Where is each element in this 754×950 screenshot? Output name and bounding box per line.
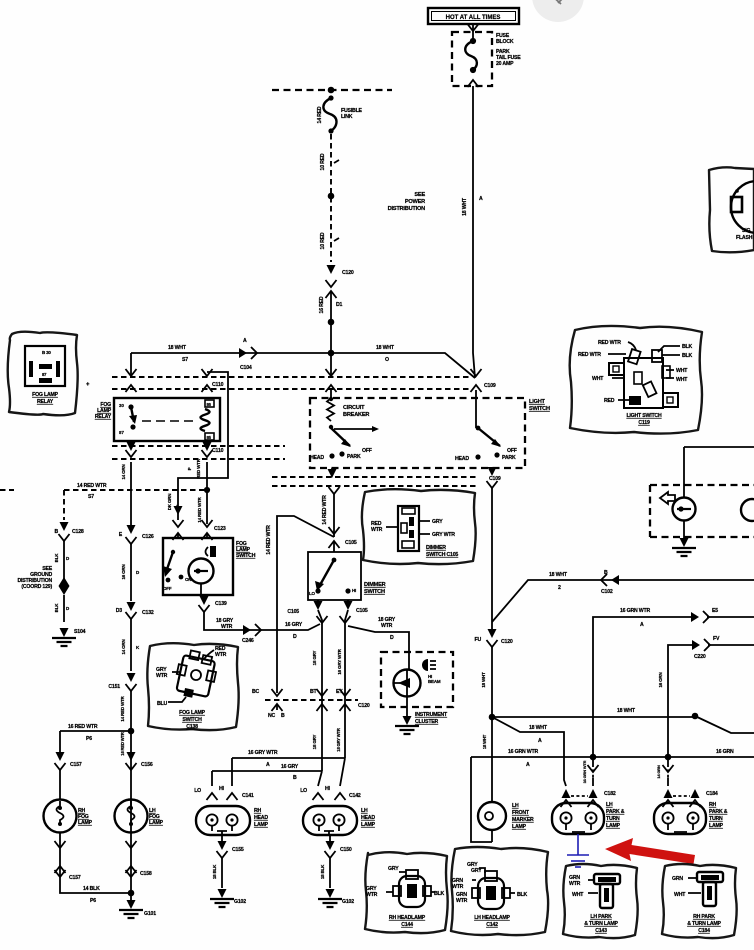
svg-text:FOG LAMP: FOG LAMP — [179, 710, 206, 716]
connector row C109 lower dashed lines — [272, 477, 478, 486]
connector C104 — [239, 347, 257, 359]
pin 85 — [205, 433, 214, 440]
svg-text:C132: C132 — [142, 610, 154, 616]
svg-text:POWER: POWER — [405, 199, 425, 205]
svg-text:TURN: TURN — [709, 816, 723, 822]
svg-text:DK GRN: DK GRN — [167, 494, 172, 511]
svg-text:RH: RH — [254, 808, 262, 814]
ground S104 — [52, 628, 76, 646]
svg-text:18 WHT: 18 WHT — [376, 345, 395, 351]
svg-text:LH: LH — [361, 808, 368, 814]
svg-text:16 ORN: 16 ORN — [658, 672, 663, 687]
svg-text:OFF: OFF — [163, 586, 172, 591]
svg-text:HEAD: HEAD — [361, 815, 375, 821]
cluster ground — [406, 696, 408, 716]
svg-text:16 GRY: 16 GRY — [281, 764, 299, 770]
svg-text:18 WHT: 18 WHT — [482, 734, 487, 749]
svg-text:LAMP: LAMP — [254, 822, 269, 828]
LH fog lamp — [115, 800, 148, 833]
svg-text:HI: HI — [219, 786, 225, 792]
svg-text:18 GRY: 18 GRY — [312, 650, 317, 665]
svg-text:BC: BC — [252, 689, 260, 695]
svg-text:C142: C142 — [486, 922, 498, 928]
svg-text:B: B — [281, 713, 285, 719]
svg-text:C246: C246 — [242, 638, 254, 644]
LH headlamp ground wire — [329, 835, 331, 845]
junction fog lamp feed — [128, 728, 135, 735]
svg-text:C144: C144 — [401, 922, 413, 928]
RH headlamp — [196, 806, 250, 835]
fog switch arm — [171, 550, 175, 554]
svg-text:C184: C184 — [706, 791, 718, 797]
svg-text:HEAD: HEAD — [455, 456, 469, 462]
svg-text:FV: FV — [713, 636, 720, 642]
fuse PARK TAIL 20A — [465, 38, 477, 73]
junction — [328, 319, 335, 326]
breaker wiper arrow — [334, 428, 372, 430]
hi beam icon — [422, 659, 428, 671]
svg-text:NC: NC — [268, 713, 276, 719]
wire dashed 10 RED — [330, 134, 332, 262]
svg-text:16 ORN: 16 ORN — [121, 564, 126, 579]
junction with 18 WHT bus — [328, 350, 335, 357]
flasher blob — [709, 167, 754, 252]
LH headlamp pins — [313, 793, 324, 800]
svg-text:14 RED WTR: 14 RED WTR — [77, 483, 107, 489]
svg-text:C157: C157 — [69, 875, 81, 881]
svg-text:WHT: WHT — [572, 892, 584, 898]
svg-text:GRY: GRY — [388, 866, 399, 872]
svg-text:SWITCH: SWITCH — [236, 553, 256, 559]
park indicator ground — [683, 520, 685, 538]
svg-text:WHT: WHT — [676, 368, 688, 374]
svg-text:WTR: WTR — [371, 527, 383, 533]
LH headlamp — [303, 806, 357, 835]
svg-text:C105: C105 — [356, 608, 368, 614]
svg-text:14 ORN: 14 ORN — [121, 639, 126, 654]
svg-text:OFF: OFF — [362, 448, 372, 454]
svg-text:RH PARK: RH PARK — [693, 914, 715, 920]
svg-text:LIGHT SWITCH: LIGHT SWITCH — [626, 413, 662, 419]
svg-text:C150: C150 — [340, 847, 352, 853]
svg-text:S7: S7 — [182, 357, 188, 363]
svg-text:P: P — [187, 467, 192, 470]
svg-text:14 RED WTR: 14 RED WTR — [322, 495, 328, 525]
park indicator lamp — [673, 498, 696, 521]
svg-text:D1: D1 — [336, 302, 343, 308]
connector row C110/C109 upper dashed lines — [112, 377, 470, 389]
svg-text:BLU: BLU — [157, 701, 168, 707]
light switch pinout blob C119 — [570, 326, 702, 434]
svg-text:LAMP: LAMP — [78, 820, 93, 826]
park indicator dashed box — [650, 485, 754, 537]
park indicator arrow icon — [660, 492, 675, 504]
NC stub — [276, 704, 278, 710]
svg-text:16 GRN WTR: 16 GRN WTR — [620, 608, 650, 614]
svg-text:16 GRY WTR: 16 GRY WTR — [248, 750, 278, 756]
svg-text:SEE: SEE — [414, 192, 425, 198]
svg-text:C220: C220 — [694, 654, 706, 660]
wire PARK output down — [491, 488, 493, 630]
wire pin85 down — [206, 462, 208, 524]
svg-text:E5: E5 — [712, 608, 718, 614]
svg-text:P6: P6 — [90, 898, 96, 904]
svg-text:FRONT: FRONT — [512, 810, 530, 816]
wire relay bypass loop — [178, 372, 228, 520]
svg-text:S7: S7 — [88, 494, 94, 500]
wire 16 GRN WTR park bus — [471, 756, 754, 758]
wire 16 GRY WTR HI bus — [232, 758, 345, 786]
svg-text:PARK: PARK — [502, 455, 516, 461]
left switch arm — [331, 428, 350, 446]
wire branch to park bus — [492, 717, 566, 786]
svg-text:14 BLK: 14 BLK — [83, 886, 100, 892]
svg-text:10 RED: 10 RED — [320, 153, 326, 170]
wire relay pin30 up to 18WHT — [130, 353, 132, 376]
svg-text:DISTRIBUTION: DISTRIBUTION — [388, 206, 426, 212]
RH headlamp pinout blob C144 — [365, 852, 448, 933]
label SEE POWER DISTRIBUTION — [388, 192, 426, 212]
svg-text:16 GRY WTR: 16 GRY WTR — [337, 648, 342, 674]
svg-text:LH PARK: LH PARK — [590, 914, 612, 920]
svg-text:D: D — [293, 634, 297, 640]
svg-text:18 BLK: 18 BLK — [212, 864, 217, 879]
svg-text:18 WHT: 18 WHT — [529, 725, 548, 731]
relay internal dashed link — [142, 420, 198, 422]
svg-text:C120: C120 — [358, 703, 370, 709]
instrument cluster dashed box — [381, 652, 453, 707]
wire to RH fog lamp — [60, 731, 131, 752]
svg-text:BLK: BLK — [54, 553, 59, 563]
svg-text:LAMP: LAMP — [512, 824, 527, 830]
junction 14 RED WTR — [204, 487, 210, 493]
wire dashed feed at top — [272, 89, 392, 91]
ground G102 RH — [210, 889, 234, 907]
svg-text:PARK &: PARK & — [606, 809, 625, 815]
svg-text:SIG: SIG — [742, 228, 751, 234]
svg-text:SWITCH C105: SWITCH C105 — [426, 552, 458, 558]
svg-text:18 GRY: 18 GRY — [312, 734, 317, 749]
dimmer switch box — [308, 552, 361, 600]
svg-text:16 RED: 16 RED — [319, 296, 325, 313]
svg-text:C139: C139 — [215, 601, 227, 607]
svg-text:C182: C182 — [604, 791, 616, 797]
svg-text:LAMP: LAMP — [361, 822, 376, 828]
svg-text:FLASH: FLASH — [736, 235, 753, 241]
svg-text:C155: C155 — [232, 847, 244, 853]
wire 16 ORN pin87 chain — [130, 462, 132, 526]
pin breaker feed connector — [326, 369, 337, 376]
svg-text:B: B — [293, 775, 297, 781]
wire 18 WHT from fuse down to light switch — [473, 86, 475, 378]
crossover row C120 — [265, 699, 358, 701]
LH front marker lamp — [471, 717, 492, 842]
hi beam indicator lamp — [394, 670, 421, 697]
svg-text:BREAKER: BREAKER — [343, 412, 369, 418]
wire 16 GRN WTR to C220 E5 — [593, 617, 754, 757]
svg-text:HEAD: HEAD — [310, 455, 324, 461]
svg-text:RH: RH — [709, 802, 717, 808]
svg-text:14 RED: 14 RED — [317, 106, 323, 123]
svg-text:A: A — [538, 738, 542, 744]
svg-text:WTR: WTR — [215, 652, 227, 658]
svg-text:BLK: BLK — [54, 603, 59, 613]
svg-text:BLK: BLK — [682, 344, 693, 350]
svg-text:30: 30 — [119, 403, 124, 408]
wire HEAD to dimmer — [333, 494, 335, 537]
svg-text:C151: C151 — [108, 684, 120, 690]
svg-text:A: A — [243, 338, 247, 344]
label fusible link — [341, 108, 363, 120]
svg-text:C109: C109 — [484, 383, 496, 389]
svg-text:20 AMP: 20 AMP — [496, 61, 514, 67]
pin 86 — [205, 400, 214, 407]
svg-text:MARKER: MARKER — [512, 817, 534, 823]
svg-text:C156: C156 — [141, 762, 153, 768]
wire fuse feed — [472, 24, 474, 40]
wire 16 GRN to C220 FV — [668, 645, 754, 757]
svg-text:C105: C105 — [287, 609, 299, 615]
svg-text:18 WHT: 18 WHT — [168, 345, 187, 351]
svg-text:16 GRY: 16 GRY — [285, 622, 303, 628]
svg-text:RED WTR: RED WTR — [578, 352, 601, 358]
svg-text:RELAY: RELAY — [95, 414, 112, 420]
svg-text:WTR: WTR — [381, 623, 393, 629]
svg-text:& TURN LAMP: & TURN LAMP — [687, 921, 721, 927]
svg-text:GRN: GRN — [672, 876, 683, 882]
svg-text:+: + — [86, 382, 90, 388]
svg-text:14 RED WTR: 14 RED WTR — [120, 695, 125, 721]
svg-text:18 WHT: 18 WHT — [549, 572, 568, 578]
svg-text:WTR: WTR — [366, 892, 378, 898]
svg-text:10 RED: 10 RED — [320, 232, 326, 249]
wire 16 GRY LO bus — [212, 771, 322, 786]
svg-text:BLK: BLK — [434, 891, 445, 897]
svg-text:SWITCH: SWITCH — [182, 717, 202, 723]
relay coil — [201, 409, 210, 431]
fuse block dashed boundary — [452, 32, 492, 86]
svg-text:WHT: WHT — [676, 377, 688, 383]
right switch arm — [478, 428, 500, 446]
svg-text:PARK &: PARK & — [709, 809, 728, 815]
ground chain S104 — [60, 522, 69, 531]
svg-text:16 RED WTR: 16 RED WTR — [68, 724, 98, 730]
svg-text:C141: C141 — [242, 793, 254, 799]
svg-text:LO: LO — [300, 788, 307, 794]
svg-text:87: 87 — [119, 430, 124, 435]
svg-text:C119: C119 — [638, 420, 650, 426]
svg-text:18 WHT: 18 WHT — [481, 672, 486, 688]
svg-text:FU: FU — [474, 637, 481, 643]
svg-text:C157: C157 — [70, 762, 82, 768]
svg-text:14 ORN: 14 ORN — [121, 464, 126, 479]
node HOT AT ALL TIMES — [428, 8, 519, 24]
LH park turn lamp — [552, 803, 604, 834]
svg-text:LH: LH — [512, 803, 519, 809]
svg-text:LAMP: LAMP — [606, 823, 621, 829]
svg-text:FOG LAMP: FOG LAMP — [32, 392, 59, 398]
pin light switch feed connector C109 — [471, 369, 482, 376]
wire 18 WHT main bus — [131, 353, 475, 378]
light switch dashed box — [310, 398, 525, 468]
svg-text:B 30: B 30 — [42, 350, 51, 355]
RH park turn lamp — [654, 803, 706, 834]
fog switch indicator icon — [210, 546, 216, 557]
svg-text:WTR: WTR — [456, 898, 468, 904]
svg-text:WHT: WHT — [592, 376, 604, 382]
svg-text:C120: C120 — [501, 639, 513, 645]
node right switch pivot — [476, 426, 481, 431]
svg-text:C110: C110 — [212, 448, 224, 454]
svg-text:G102: G102 — [342, 899, 354, 905]
RH park turn pinout blob C184 — [662, 864, 737, 938]
svg-text:C105: C105 — [345, 540, 357, 546]
dimmer arm LO — [320, 560, 334, 585]
svg-text:B: B — [54, 529, 58, 535]
svg-text:B: B — [604, 570, 608, 576]
connector C105 top — [329, 527, 340, 534]
svg-text:BEAM: BEAM — [428, 679, 441, 684]
svg-text:C126: C126 — [142, 534, 154, 540]
svg-text:C143: C143 — [595, 928, 607, 934]
svg-text:A: A — [526, 762, 530, 768]
ground G101 — [130, 893, 132, 900]
connector C184 pins — [664, 789, 673, 798]
junction RH park — [665, 754, 672, 761]
pin relay 86 connector — [202, 369, 213, 376]
connector C120 splice — [327, 265, 336, 274]
splice diamond — [59, 577, 70, 595]
wire 18 GRY WTR HI — [345, 610, 348, 758]
svg-text:A: A — [479, 196, 483, 202]
svg-text:16 RED WTR: 16 RED WTR — [120, 732, 125, 756]
park indicator lamp 2 partial — [741, 499, 754, 521]
svg-text:16 GRN WTR: 16 GRN WTR — [582, 760, 587, 783]
svg-text:C158: C158 — [140, 871, 152, 877]
svg-text:CIRCUIT: CIRCUIT — [343, 405, 365, 411]
circuit breaker — [327, 390, 334, 421]
svg-text:RED WTR: RED WTR — [196, 458, 201, 479]
relay bottom connector row — [112, 446, 285, 459]
dimmer switch pinout blob C105 — [362, 489, 476, 564]
svg-text:HEAD: HEAD — [254, 815, 268, 821]
splice to NC branch — [277, 516, 334, 693]
svg-text:C138: C138 — [186, 724, 198, 730]
fusible link — [323, 95, 336, 133]
svg-text:PARK: PARK — [347, 454, 361, 460]
svg-text:D3: D3 — [116, 608, 123, 614]
wire 18 WHT taillamp feed — [492, 580, 754, 622]
wire 18 GRY LO — [318, 610, 322, 771]
svg-text:O: O — [385, 357, 389, 363]
ground G102 LH — [318, 889, 342, 907]
svg-text:C102: C102 — [601, 589, 613, 595]
svg-text:RED: RED — [604, 398, 615, 404]
svg-text:EY: EY — [336, 689, 343, 695]
svg-text:DIMMER: DIMMER — [364, 582, 386, 588]
node breaker top — [329, 397, 333, 401]
wire LH park turn drops — [592, 757, 594, 786]
svg-text:SWITCH: SWITCH — [529, 406, 550, 412]
svg-text:C109: C109 — [489, 476, 501, 482]
svg-text:WTR: WTR — [569, 881, 581, 887]
svg-text:TURN: TURN — [606, 816, 620, 822]
connector C123 into fog switch — [173, 520, 184, 527]
RH headlamp ground wire — [221, 835, 223, 845]
svg-text:C142: C142 — [349, 793, 361, 799]
fog switch output C139 — [200, 584, 202, 596]
svg-text:GRY: GRY — [471, 868, 482, 874]
svg-text:14 GRN: 14 GRN — [656, 765, 661, 779]
svg-text:CLUSTER: CLUSTER — [415, 719, 439, 725]
svg-text:GRY: GRY — [432, 519, 443, 525]
svg-text:14 RED WTR: 14 RED WTR — [197, 496, 202, 522]
svg-text:HOT AT ALL TIMES: HOT AT ALL TIMES — [446, 15, 501, 21]
close button — [532, 0, 584, 22]
svg-text:LAMP: LAMP — [709, 823, 724, 829]
connector C102 — [601, 574, 619, 586]
svg-text:18 BLK: 18 BLK — [320, 864, 325, 879]
svg-text:INSTRUMENT: INSTRUMENT — [415, 712, 448, 718]
junction top feed — [328, 87, 335, 94]
svg-text:WTR: WTR — [156, 673, 168, 679]
svg-text:RH HEADLAMP: RH HEADLAMP — [389, 915, 426, 921]
svg-text:OFF: OFF — [507, 448, 517, 454]
red callout arrow — [605, 838, 695, 864]
svg-text:C104: C104 — [240, 365, 252, 371]
dimmer outputs C105 — [314, 601, 323, 610]
svg-text:C123: C123 — [214, 526, 226, 532]
svg-text:(COORD 129): (COORD 129) — [21, 584, 52, 590]
svg-text:18 GRY WTR: 18 GRY WTR — [336, 728, 341, 752]
svg-text:C120: C120 — [342, 270, 354, 276]
pin HEAD output — [328, 469, 337, 478]
junction — [328, 193, 335, 200]
svg-text:DIMMER: DIMMER — [426, 545, 446, 551]
svg-text:18 WHT: 18 WHT — [617, 708, 636, 714]
svg-text:GRY WTR: GRY WTR — [432, 532, 455, 538]
right switch feed — [475, 390, 477, 428]
svg-text:RED WTR: RED WTR — [598, 340, 621, 346]
node breaker bottom pivot — [329, 425, 333, 429]
fog lamp switch pinout blob C138 — [147, 643, 238, 730]
connector C157 — [56, 752, 65, 761]
svg-text:C110: C110 — [212, 382, 224, 388]
LH headlamp pinout blob C142 — [451, 847, 548, 935]
svg-text:& TURN LAMP: & TURN LAMP — [584, 921, 618, 927]
svg-text:LINK: LINK — [341, 114, 353, 120]
svg-text:BLK: BLK — [682, 353, 693, 359]
label see ground distribution — [18, 566, 53, 590]
fog lamp relay pinout blob — [8, 332, 78, 416]
svg-text:BLOCK: BLOCK — [496, 39, 514, 45]
svg-text:C128: C128 — [72, 529, 84, 535]
wire 18 WHT across bottom — [492, 716, 754, 733]
label fuse block — [496, 33, 521, 67]
svg-text:P6: P6 — [86, 736, 92, 742]
svg-text:BT: BT — [310, 689, 318, 695]
dimmer contact HI — [345, 588, 350, 593]
svg-text:16 GRN WTR: 16 GRN WTR — [508, 749, 538, 755]
wire HI beam indicator feed — [348, 626, 409, 669]
RH headlamp pins — [212, 758, 232, 786]
fog lamp switch box — [163, 538, 233, 595]
junction LH park — [590, 754, 597, 761]
svg-text:LO: LO — [309, 591, 316, 596]
svg-text:LH HEADLAMP: LH HEADLAMP — [474, 915, 510, 921]
wire RH park turn drops — [667, 757, 669, 786]
LH park turn pinout blob C143 — [563, 864, 638, 938]
